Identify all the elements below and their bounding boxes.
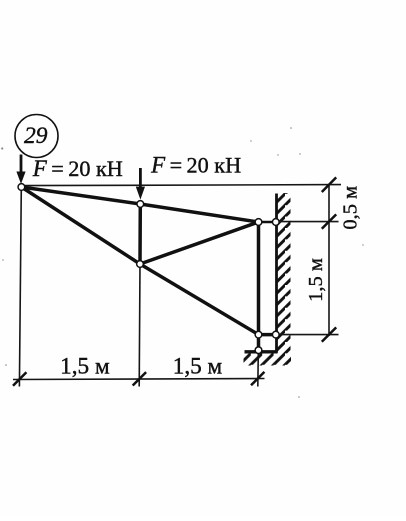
svg-text:1,5 м: 1,5 м <box>60 354 110 380</box>
svg-text:F = 20 кН: F = 20 кН <box>150 152 241 177</box>
svg-text:1,5 м: 1,5 м <box>173 354 223 380</box>
svg-text:29: 29 <box>24 123 48 149</box>
svg-text:1,5 м: 1,5 м <box>305 258 327 302</box>
svg-text:0,5 м: 0,5 м <box>340 186 362 230</box>
svg-text:F = 20 кН: F = 20 кН <box>32 156 123 181</box>
